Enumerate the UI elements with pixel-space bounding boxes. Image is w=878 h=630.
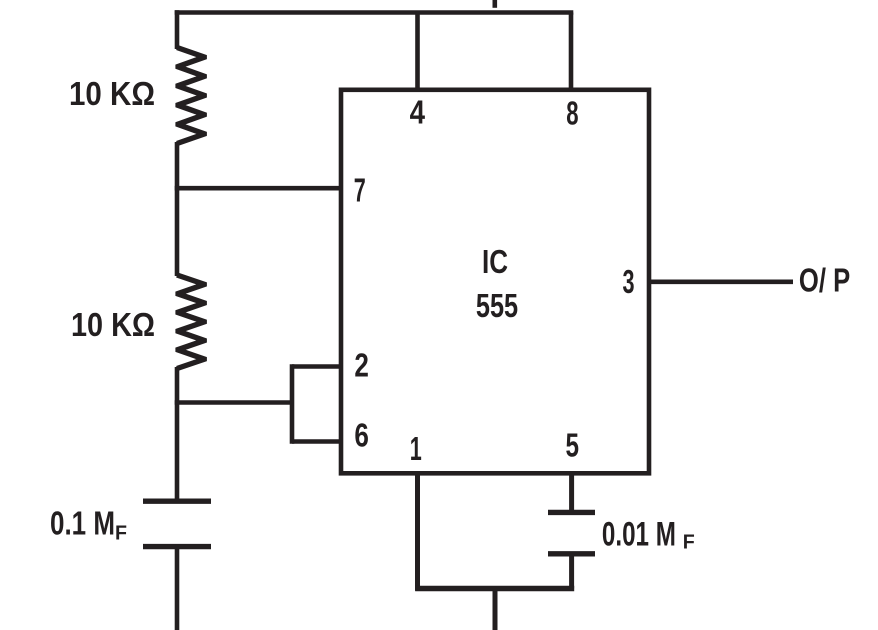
wire bottom bus xyxy=(415,586,574,592)
wire top bus xyxy=(175,10,574,15)
wire pin1 xyxy=(415,473,420,591)
wire node2 to bracket xyxy=(175,400,292,405)
svg-text:8: 8 xyxy=(566,94,578,131)
svg-text:5: 5 xyxy=(566,426,580,463)
supply lead Vcc xyxy=(492,0,497,8)
svg-text:IC: IC xyxy=(482,243,508,280)
svg-text:1: 1 xyxy=(410,430,422,467)
wire pin8 xyxy=(569,13,574,91)
wire left rail lower xyxy=(175,367,180,501)
wire pin3 output xyxy=(649,279,793,284)
svg-text:0.01 M: 0.01 M xyxy=(602,515,676,553)
capacitor C2 xyxy=(548,512,595,553)
svg-text:10 KΩ: 10 KΩ xyxy=(69,75,155,112)
wire pin6 stub xyxy=(292,439,341,444)
capacitor C1 xyxy=(143,501,211,546)
svg-text:7: 7 xyxy=(354,172,366,209)
svg-text:F: F xyxy=(115,523,127,545)
wire left rail upper xyxy=(175,10,180,49)
IC U1 555 timer box xyxy=(341,90,649,474)
svg-text:555: 555 xyxy=(476,287,518,324)
svg-text:10 KΩ: 10 KΩ xyxy=(71,306,155,343)
wire bracket vertical xyxy=(290,364,295,444)
wire pin7 node xyxy=(175,186,341,191)
svg-text:2: 2 xyxy=(354,347,369,384)
resistor R1 xyxy=(177,48,205,144)
svg-text:4: 4 xyxy=(410,94,426,131)
svg-text:6: 6 xyxy=(354,417,369,454)
wire pin4 xyxy=(415,13,420,91)
wire left rail mid xyxy=(175,142,180,276)
wire pin2 stub xyxy=(292,364,341,369)
svg-text:3: 3 xyxy=(623,263,635,300)
resistor R2 xyxy=(177,275,205,369)
wire below C1 to ground xyxy=(175,547,180,630)
ground lead xyxy=(493,589,498,630)
svg-text:F: F xyxy=(683,532,695,554)
svg-text:0.1 M: 0.1 M xyxy=(50,505,115,542)
svg-text:O/ P: O/ P xyxy=(799,262,850,299)
wire below C2 xyxy=(569,554,574,589)
wire pin5 xyxy=(569,473,574,512)
